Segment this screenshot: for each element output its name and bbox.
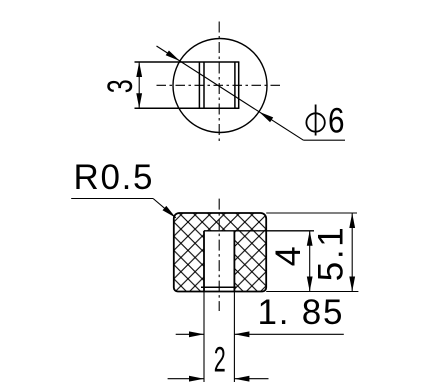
wire hole left wall extension down [203,292,205,383]
wire slot vertical line 1 [198,62,200,108]
wire R0.5 leader underline [71,198,153,200]
resistor body section (lower view) [174,213,266,292]
wire phi6 leader diagonal [157,46,304,140]
wire phi6 arrows [166,51,180,62]
node A : top view circle phi6 [173,39,267,133]
svg-text:2: 2 [214,340,226,379]
wire hole right wall extension down [233,292,235,383]
wire lower view arrows [163,206,356,382]
wire hatched section fill [174,213,266,292]
wire dimension line 5.1 [351,213,353,292]
wire body outline [174,213,266,292]
wire dim 3 arrows [136,51,273,123]
wire R0.5 leader diagonal [153,199,176,218]
wire bottom edge extension right [266,291,358,293]
wire horizontal centerline top view [157,84,284,86]
svg-text:3: 3 [101,79,140,93]
wire top edge of slot rectangle [135,61,240,63]
wire bottom edge of slot rectangle [135,107,240,109]
wire [135,22,346,143]
svg-text:5.1: 5.1 [311,227,350,281]
wire dim line 1.85 right [234,333,343,335]
wire phi6 leader tail [303,139,345,141]
wire vertical centerline lower view [218,199,220,311]
wire dim line 2 left [168,378,204,380]
wire dimension line 3 [138,62,140,108]
wire hole top edge plus extension right [204,230,314,232]
svg-text:R0.5: R0.5 [74,158,153,197]
wire dim line 1.85 left [176,333,204,335]
wire hole right wall [233,231,235,292]
wire slot vertical line 3 [234,62,236,108]
wire dim line 2 right [234,378,268,380]
svg-text:4: 4 [269,246,308,266]
node phi6 label [306,105,324,136]
wire slot vertical line 2 [203,62,205,108]
wire hole left wall [203,231,205,292]
wire inner step line [201,286,236,288]
wire vertical centerline top view [218,22,220,143]
wire top edge extension right [266,212,357,214]
svg-text:6: 6 [328,101,345,140]
wire slot vertical line 4 [238,62,240,108]
wire dimension line 4 [309,231,311,292]
